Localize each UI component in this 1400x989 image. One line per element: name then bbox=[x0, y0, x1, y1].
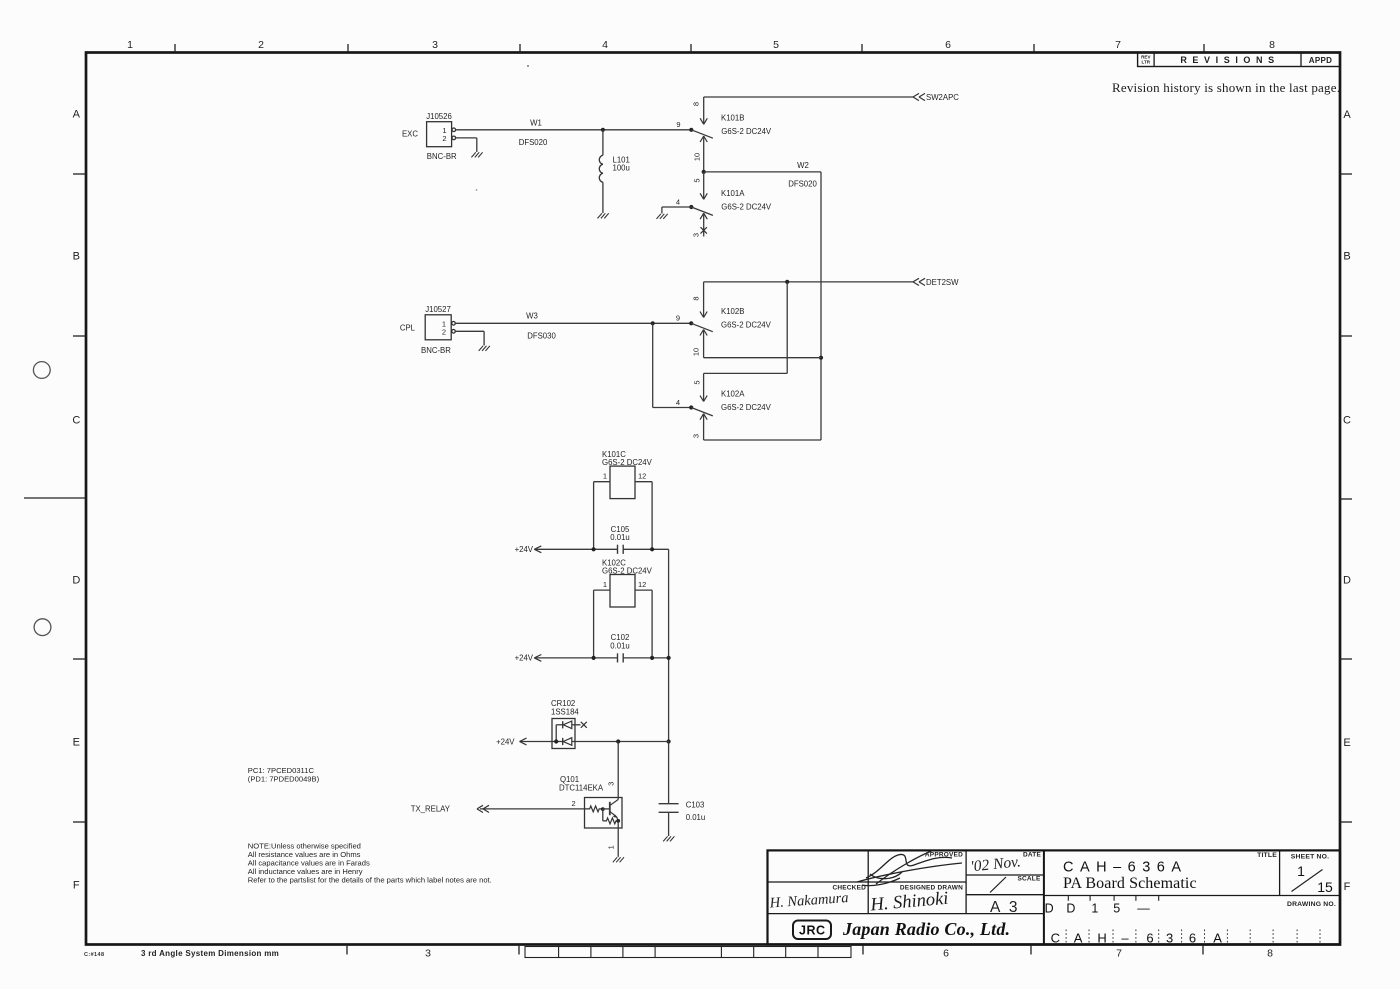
svg-text:3: 3 bbox=[432, 39, 438, 51]
svg-text:DATE: DATE bbox=[1023, 852, 1041, 859]
svg-text:1: 1 bbox=[1091, 902, 1098, 916]
svg-text:3 rd Angle System Dimension m: 3 rd Angle System Dimension mm bbox=[141, 949, 279, 958]
svg-text:6: 6 bbox=[1189, 931, 1196, 946]
svg-text:Refer to the partslist for the: Refer to the partslist for the details o… bbox=[248, 875, 492, 884]
svg-text:D: D bbox=[72, 574, 80, 586]
svg-text:TITLE: TITLE bbox=[1257, 852, 1277, 859]
svg-text:10: 10 bbox=[691, 348, 700, 356]
svg-text:1: 1 bbox=[607, 845, 616, 849]
svg-text:8: 8 bbox=[1269, 39, 1275, 51]
svg-text:SCALE: SCALE bbox=[1017, 875, 1040, 882]
svg-text:B: B bbox=[1343, 251, 1350, 263]
svg-text:8: 8 bbox=[1267, 948, 1273, 960]
svg-text:5: 5 bbox=[692, 178, 701, 182]
svg-text:–: – bbox=[1121, 931, 1129, 946]
svg-text:0.01u: 0.01u bbox=[686, 813, 706, 822]
svg-text:W3: W3 bbox=[526, 312, 538, 321]
svg-text:DFS020: DFS020 bbox=[519, 138, 548, 147]
svg-text:3: 3 bbox=[691, 434, 700, 438]
svg-text:DFS030: DFS030 bbox=[527, 332, 556, 341]
svg-text:1SS184: 1SS184 bbox=[551, 707, 579, 716]
svg-text:DFS020: DFS020 bbox=[788, 180, 817, 189]
svg-text:H: H bbox=[1097, 931, 1106, 946]
svg-text:K102B: K102B bbox=[721, 307, 744, 316]
svg-text:D: D bbox=[1045, 902, 1054, 916]
svg-text:BNC-BR: BNC-BR bbox=[427, 152, 457, 161]
svg-text:F: F bbox=[1344, 881, 1351, 893]
svg-text:8: 8 bbox=[691, 296, 700, 300]
svg-text:15: 15 bbox=[1317, 879, 1333, 895]
svg-text:3: 3 bbox=[692, 233, 701, 237]
svg-text:3: 3 bbox=[425, 948, 431, 960]
svg-text:2: 2 bbox=[572, 799, 576, 808]
svg-text:R E V I S I O N S: R E V I S I O N S bbox=[1180, 55, 1275, 65]
svg-text:12: 12 bbox=[638, 472, 646, 481]
svg-text:A: A bbox=[1213, 931, 1222, 946]
svg-text:PA Board Schematic: PA Board Schematic bbox=[1063, 875, 1197, 892]
svg-text:100u: 100u bbox=[613, 163, 630, 172]
svg-text:SW2APC: SW2APC bbox=[926, 93, 959, 102]
svg-text:W1: W1 bbox=[530, 118, 542, 127]
svg-text:CAH–636A: CAH–636A bbox=[1063, 859, 1188, 875]
svg-text:K101B: K101B bbox=[721, 114, 744, 123]
svg-text:G6S-2 DC24V: G6S-2 DC24V bbox=[721, 403, 772, 412]
svg-text:9: 9 bbox=[676, 314, 680, 323]
svg-text:0.01u: 0.01u bbox=[610, 641, 630, 650]
svg-text:SHEET NO.: SHEET NO. bbox=[1291, 854, 1329, 861]
svg-text:0.01u: 0.01u bbox=[610, 533, 630, 542]
svg-text:+24V: +24V bbox=[515, 545, 534, 554]
svg-text:2: 2 bbox=[442, 134, 446, 143]
svg-text:E: E bbox=[73, 736, 80, 748]
svg-text:EXC: EXC bbox=[402, 129, 418, 138]
svg-text:Japan Radio Co., Ltd.: Japan Radio Co., Ltd. bbox=[842, 919, 1010, 939]
svg-text:4: 4 bbox=[602, 39, 608, 51]
svg-text:+24V: +24V bbox=[496, 737, 515, 746]
svg-text:2: 2 bbox=[442, 328, 446, 337]
svg-text:7: 7 bbox=[1115, 39, 1121, 51]
svg-text:7: 7 bbox=[1116, 948, 1122, 960]
svg-text:C: C bbox=[72, 414, 80, 426]
svg-text:G6S-2 DC24V: G6S-2 DC24V bbox=[721, 127, 772, 136]
svg-text:DET2SW: DET2SW bbox=[926, 278, 959, 287]
svg-text:A: A bbox=[1074, 931, 1083, 946]
svg-text:G6S-2 DC24V: G6S-2 DC24V bbox=[602, 458, 653, 467]
svg-text:A: A bbox=[1343, 109, 1351, 121]
svg-text:C:#148: C:#148 bbox=[84, 952, 104, 958]
svg-text:10: 10 bbox=[692, 153, 701, 161]
svg-text:D: D bbox=[1066, 902, 1075, 916]
svg-text:3: 3 bbox=[607, 782, 616, 786]
svg-text:BNC-BR: BNC-BR bbox=[421, 346, 451, 355]
svg-text:1: 1 bbox=[603, 580, 607, 589]
svg-text:1: 1 bbox=[1297, 863, 1305, 879]
svg-text:DRAWING NO.: DRAWING NO. bbox=[1287, 901, 1336, 908]
svg-text:C: C bbox=[1343, 415, 1351, 427]
svg-text:W2: W2 bbox=[797, 161, 809, 170]
svg-text:—: — bbox=[1137, 902, 1150, 916]
svg-text:JRC: JRC bbox=[799, 923, 826, 937]
svg-text:5: 5 bbox=[693, 380, 702, 384]
svg-text:F: F bbox=[73, 880, 80, 892]
svg-text:J10526: J10526 bbox=[426, 112, 452, 121]
svg-text:4: 4 bbox=[676, 197, 680, 206]
svg-text:APPD: APPD bbox=[1309, 56, 1332, 65]
svg-text:6: 6 bbox=[1146, 931, 1153, 946]
svg-text:1: 1 bbox=[127, 39, 133, 51]
svg-text:3: 3 bbox=[1166, 931, 1173, 946]
svg-text:5: 5 bbox=[773, 39, 779, 51]
svg-text:C103: C103 bbox=[686, 801, 705, 810]
svg-text:6: 6 bbox=[943, 948, 949, 960]
svg-text:B: B bbox=[73, 251, 80, 263]
svg-text:G6S-2 DC24V: G6S-2 DC24V bbox=[721, 203, 772, 212]
svg-text:TX_RELAY: TX_RELAY bbox=[411, 805, 451, 814]
svg-text:1: 1 bbox=[603, 472, 607, 481]
svg-text:4: 4 bbox=[676, 398, 680, 407]
svg-text:C: C bbox=[1051, 931, 1060, 946]
svg-text:D: D bbox=[1343, 574, 1351, 586]
svg-text:+24V: +24V bbox=[515, 654, 534, 663]
svg-text:CPL: CPL bbox=[400, 323, 416, 332]
svg-text:J10527: J10527 bbox=[425, 305, 451, 314]
svg-text:8: 8 bbox=[692, 102, 701, 106]
svg-text:2: 2 bbox=[258, 39, 264, 51]
svg-text:12: 12 bbox=[638, 580, 646, 589]
svg-text:(PD1: 7PDED0049B): (PD1: 7PDED0049B) bbox=[248, 774, 320, 783]
svg-text:6: 6 bbox=[945, 39, 951, 51]
svg-text:A: A bbox=[73, 109, 81, 121]
svg-text:DTC114EKA: DTC114EKA bbox=[559, 783, 604, 792]
svg-text:E: E bbox=[1343, 737, 1350, 749]
svg-text:Revision history is shown in t: Revision history is shown in the last pa… bbox=[1112, 80, 1340, 95]
svg-text:9: 9 bbox=[676, 120, 680, 129]
svg-text:LTR: LTR bbox=[1142, 60, 1151, 65]
svg-text:5: 5 bbox=[1113, 902, 1120, 916]
svg-text:K101A: K101A bbox=[721, 189, 745, 198]
svg-text:A 3: A 3 bbox=[990, 899, 1020, 916]
svg-text:G6S-2 DC24V: G6S-2 DC24V bbox=[721, 320, 772, 329]
svg-text:G6S-2 DC24V: G6S-2 DC24V bbox=[602, 566, 653, 575]
svg-text:K102A: K102A bbox=[721, 390, 745, 399]
